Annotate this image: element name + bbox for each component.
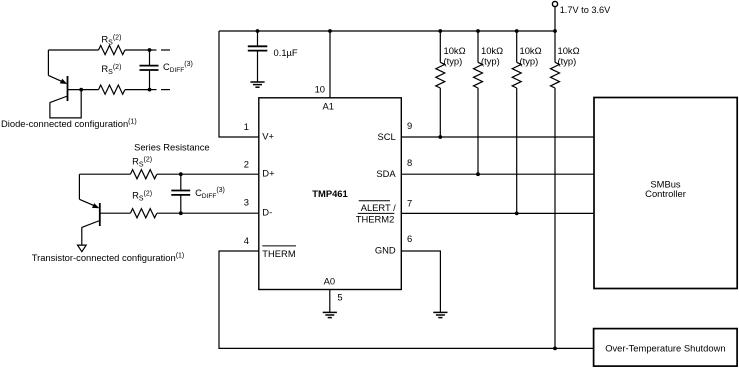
label 10k R1 xyxy=(444,45,466,66)
ground (GND pin) xyxy=(433,312,447,317)
svg-text:10: 10 xyxy=(315,83,325,94)
pin label THERM2 (overline) xyxy=(356,213,395,224)
svg-text:A1: A1 xyxy=(322,101,333,112)
svg-text:THERM2: THERM2 xyxy=(356,213,395,224)
svg-text:Over-Temperature Shutdown: Over-Temperature Shutdown xyxy=(605,342,725,353)
resistor RS (transistor config, D- side) xyxy=(130,209,258,218)
label SMBus Controller xyxy=(645,178,686,199)
svg-text:2: 2 xyxy=(244,158,249,169)
wire Q1 collector loop to base xyxy=(50,90,81,118)
transistor Q1 (diode-connected) xyxy=(48,50,98,118)
svg-text:Series Resistance: Series Resistance xyxy=(134,142,210,153)
svg-text:THERM: THERM xyxy=(262,248,296,259)
node rail-R1 xyxy=(438,29,442,33)
wire power rail xyxy=(219,30,555,32)
resistor RS (diode config, D- side) xyxy=(99,85,150,94)
svg-text:Controller: Controller xyxy=(645,188,686,199)
wire V+ feed xyxy=(219,31,259,137)
svg-text:1: 1 xyxy=(244,121,249,132)
wire SCL xyxy=(401,136,594,138)
supply terminal 1.7V to 3.6V xyxy=(552,1,557,31)
node CDIFF2 bottom xyxy=(179,211,183,215)
resistor R1 10k pull-up (SCL) xyxy=(436,31,445,137)
Over-Temperature Shutdown box xyxy=(594,329,738,367)
svg-text:(typ): (typ) xyxy=(444,55,463,66)
svg-text:Diode-connected configuration(: Diode-connected configuration(1) xyxy=(1,118,137,129)
label 10k R2 xyxy=(481,45,503,66)
node Q1 base-collector xyxy=(79,88,83,92)
node rail-C1 xyxy=(256,29,260,33)
SMBus Controller box xyxy=(594,98,737,289)
svg-text:6: 6 xyxy=(407,233,412,244)
collector arrow (to GND) xyxy=(78,245,87,252)
node THERM-R4 xyxy=(553,347,557,351)
svg-text:0.1µF: 0.1µF xyxy=(274,47,298,58)
svg-text:(typ): (typ) xyxy=(558,55,577,66)
resistor R3 10k pull-up (ALERT) xyxy=(512,31,521,213)
capacitor CDIFF (transistor config) xyxy=(171,174,190,213)
wire Q1 emitter feed xyxy=(47,50,49,75)
pin label THERM (overline) xyxy=(262,246,296,259)
IC U1 TMP461 xyxy=(259,98,402,290)
resistor RS (diode config, D+ side) xyxy=(48,45,149,54)
svg-text:GND: GND xyxy=(375,245,396,256)
capacitor CDIFF (diode config) xyxy=(140,50,159,90)
node rail-R3 xyxy=(515,29,519,33)
capacitor C1 0.1uF xyxy=(248,31,267,82)
svg-text:(typ): (typ) xyxy=(520,55,539,66)
resistor R2 10k pull-up (SDA) xyxy=(474,31,483,174)
wire Q1 base lead xyxy=(68,89,99,91)
svg-text:3: 3 xyxy=(244,197,249,208)
svg-text:8: 8 xyxy=(407,157,412,168)
node rail-A1 xyxy=(328,29,332,33)
label 10k R3 xyxy=(520,45,542,66)
resistor R4 10k pull-up (THERM) xyxy=(551,31,560,348)
node ALERT-R3 xyxy=(515,212,519,216)
svg-text:ALERT /: ALERT / xyxy=(361,202,396,213)
svg-text:9: 9 xyxy=(407,120,412,131)
transistor Q2 (transistor-connected) xyxy=(78,174,131,252)
svg-text:TMP461: TMP461 xyxy=(312,188,347,199)
node CDIFF1 top xyxy=(148,48,152,52)
wire A1 stub xyxy=(329,31,331,98)
svg-text:V+: V+ xyxy=(262,131,274,142)
svg-text:D+: D+ xyxy=(262,168,275,179)
svg-text:5: 5 xyxy=(337,291,342,302)
wire dashed stub D+ (diode config) xyxy=(150,49,171,51)
pin label ALERT/ (overline) xyxy=(359,201,396,213)
wire Q2 emitter feed xyxy=(78,174,80,199)
label 10k R4 xyxy=(558,45,580,66)
node SCL-R1 xyxy=(438,135,442,139)
node SDA-R2 xyxy=(476,172,480,176)
wire SDA xyxy=(401,173,594,175)
wire ALERT/THERM2 xyxy=(401,212,594,214)
node CDIFF1 bottom xyxy=(148,88,152,92)
resistor RS (transistor config, D+ side) xyxy=(79,170,258,179)
wire dashed stub D- (diode config) xyxy=(150,89,171,91)
wire GND pin to ground xyxy=(401,251,440,312)
svg-text:Transistor-connected configura: Transistor-connected configuration(1) xyxy=(32,252,185,263)
svg-text:A0: A0 xyxy=(324,275,335,286)
node CDIFF2 top xyxy=(179,172,183,176)
wire Q2 base lead xyxy=(100,212,131,214)
svg-text:D-: D- xyxy=(262,207,272,218)
node rail-supply xyxy=(553,29,557,33)
node rail-R2 xyxy=(476,29,480,33)
wire Q2 collector down xyxy=(81,227,83,245)
node dots xyxy=(79,29,557,350)
wire A0 stub to ground xyxy=(329,290,331,313)
svg-text:4: 4 xyxy=(244,235,249,246)
wire THERM to Over-Temperature Shutdown xyxy=(219,251,594,348)
svg-text:SDA: SDA xyxy=(376,168,396,179)
svg-text:SCL: SCL xyxy=(377,131,395,142)
ground (C1) xyxy=(250,82,264,87)
svg-text:(typ): (typ) xyxy=(481,55,500,66)
ground (A0) xyxy=(323,312,337,317)
svg-text:1.7V to 3.6V: 1.7V to 3.6V xyxy=(560,5,611,15)
svg-text:7: 7 xyxy=(407,197,412,208)
